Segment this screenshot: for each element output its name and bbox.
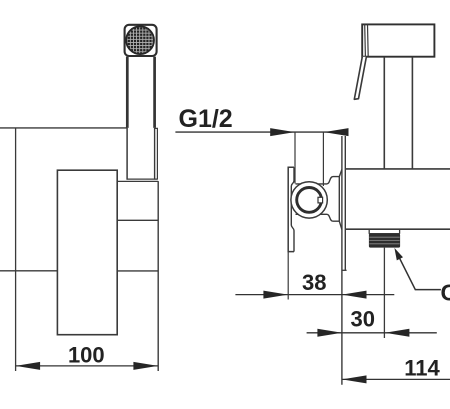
dimension G1/2: extension line right — [322, 132, 324, 186]
front view: cover plate rectangle — [57, 170, 117, 335]
side view: threaded outlet block — [369, 234, 400, 248]
svg-text:100: 100 — [68, 343, 105, 368]
svg-text:G: G — [441, 280, 450, 306]
side view: wall plate front line — [341, 136, 343, 385]
side view: wall plate back line — [344, 136, 346, 270]
side view: sprayer head rectangle — [362, 24, 434, 56]
side view: outlet neck — [369, 229, 400, 234]
dimension G1/2: extension line left — [294, 132, 296, 183]
front view: wall line lower left — [0, 270, 57, 272]
svg-text:114: 114 — [404, 355, 440, 380]
dimension G1/2: dimension line — [175, 131, 348, 133]
dimension 38: dimension line — [235, 294, 394, 296]
front view: handle left edge lower — [126, 128, 128, 180]
side view: bracket flange outline — [288, 167, 294, 251]
dimension G1/2: right-pointing arrow — [270, 128, 295, 136]
front view: plate left edge / extension line — [15, 128, 17, 371]
leader line to G thread — [396, 252, 441, 290]
side view: handle left edge — [383, 57, 385, 169]
front view: sprayer head rounded square — [125, 25, 157, 56]
side view: valve body bottom edge — [345, 228, 450, 230]
dimension 100: dimension line — [16, 365, 158, 367]
front view: body column bottom edge — [117, 270, 158, 272]
side view: bracket lower jaw — [296, 214, 340, 221]
front view: body column middle divider — [117, 219, 158, 221]
dimension 114: dimension line — [342, 378, 450, 380]
svg-text:G1/2: G1/2 — [179, 105, 233, 133]
side view: wall plate bottom hook — [342, 269, 347, 271]
side view: spout tube — [354, 57, 366, 100]
dimension 30: dimension line — [307, 332, 437, 334]
svg-text:38: 38 — [302, 270, 326, 295]
front view: handle right edge lower — [154, 128, 156, 180]
dimension 38: left arrow — [263, 291, 288, 299]
front view: wall line upper — [0, 127, 127, 129]
side view: bracket flange inner edge with jogs — [291, 167, 294, 251]
side view: outlet center extension line — [383, 248, 385, 338]
front view: body column right edge / extension line — [157, 181, 159, 371]
front view: handle bottom cap — [127, 178, 158, 180]
leader arrowhead — [394, 248, 403, 261]
front view: holder strip right of handle — [155, 128, 158, 179]
front view: nozzle face dark circle with grid — [126, 26, 154, 54]
front view: handle right edge upper (thick) — [153, 57, 156, 128]
dimension G1/2: left-pointing arrow — [324, 128, 349, 136]
dimension 100: right arrow — [133, 362, 158, 370]
side view: pipe notch square — [318, 197, 323, 203]
side view: supply pipe outer circle — [291, 182, 327, 218]
dimension 30: left arrow — [317, 329, 342, 337]
side view: handle right edge — [411, 57, 413, 169]
dimension 38: left extension (flange edge) — [287, 252, 289, 300]
side view: bracket right edge — [339, 170, 342, 230]
front view: body column top edge — [117, 180, 158, 182]
dimension 38: right arrow — [342, 291, 367, 299]
side view: supply pipe inner thick circle — [297, 188, 322, 213]
front view: handle left edge upper (thick) — [126, 57, 129, 128]
side view: thread ridges — [369, 236, 399, 238]
dimension 100: left arrow — [16, 362, 40, 370]
dimension 30: right arrow — [385, 329, 410, 337]
side view: bracket upper jaw — [296, 177, 340, 184]
side view: head face double line — [364, 24, 367, 56]
side view: valve body top edge — [345, 168, 450, 170]
svg-text:30: 30 — [351, 307, 375, 332]
dimension 114: left arrow — [342, 375, 367, 383]
